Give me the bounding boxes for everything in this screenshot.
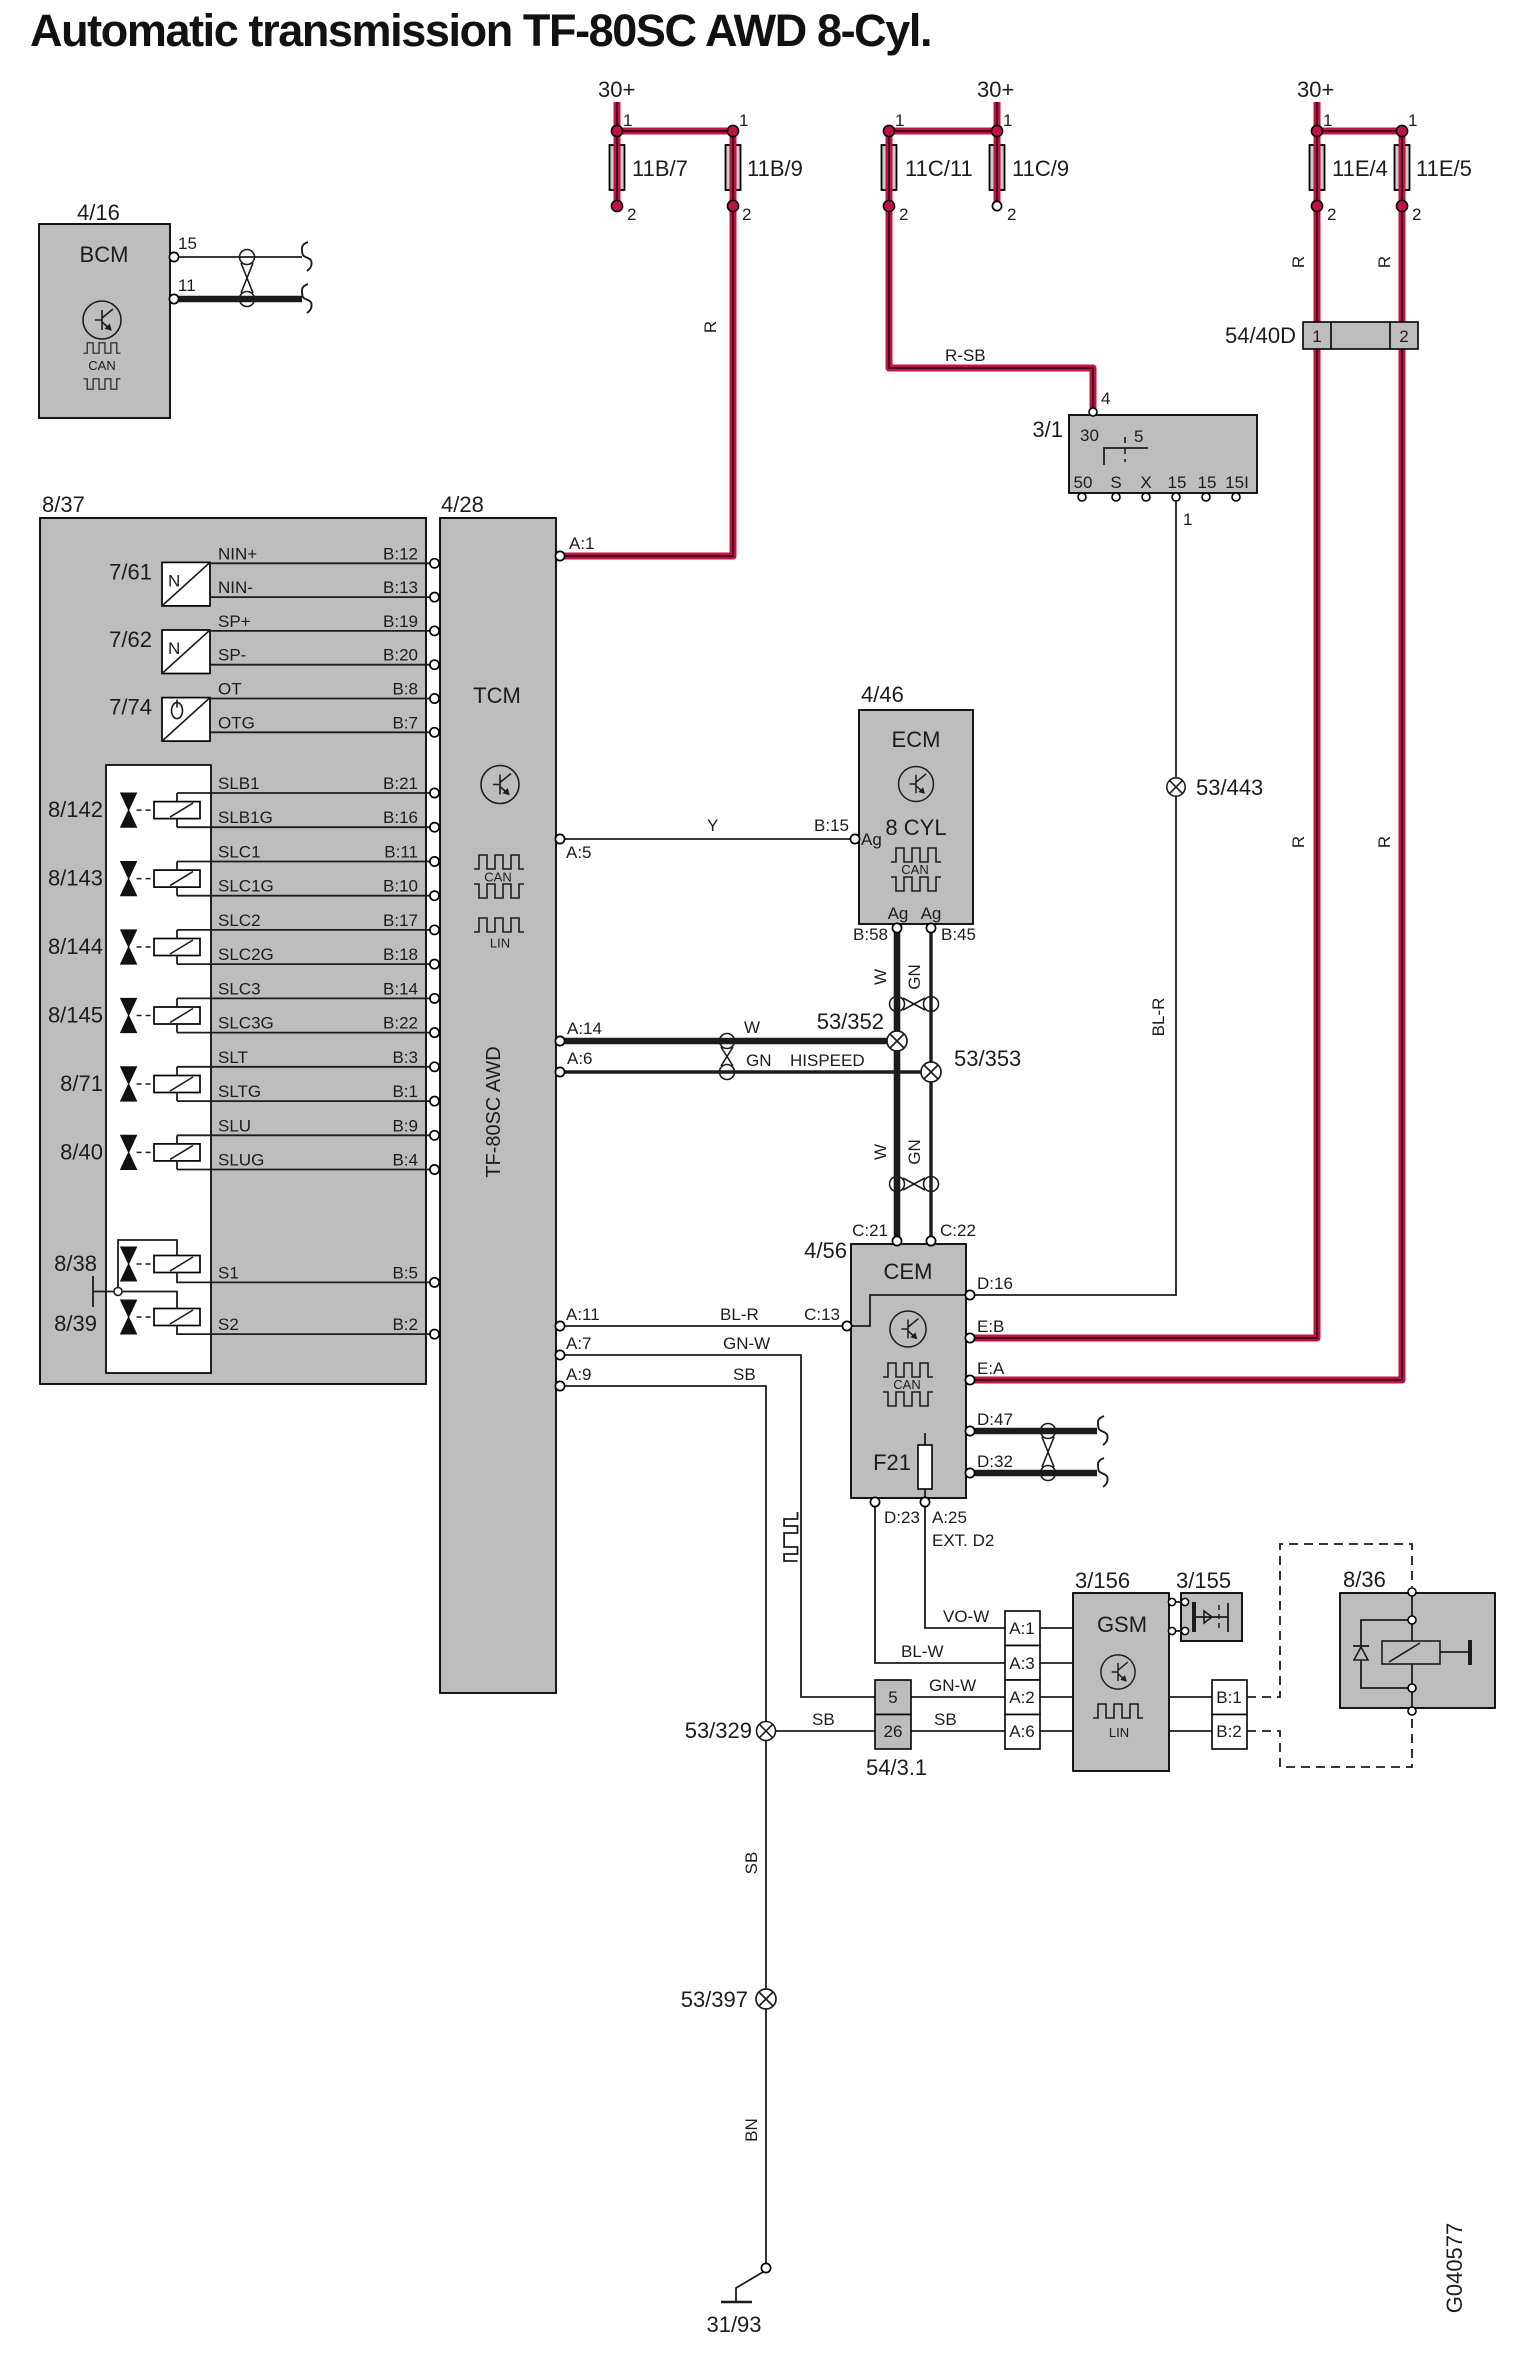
svg-text:30: 30 xyxy=(1080,426,1099,445)
wire Y TCM A:5 to ECM B:15 xyxy=(555,816,859,862)
svg-text:D:32: D:32 xyxy=(977,1452,1013,1471)
open terminal 11C/9 pin 2 xyxy=(992,201,1016,224)
ECM label 4/46 xyxy=(861,682,904,707)
svg-text:LIN: LIN xyxy=(490,936,510,951)
junction dot 11B/7 pin 1 xyxy=(611,111,632,137)
connector cell A:3 xyxy=(1005,1646,1040,1681)
svg-text:B:19: B:19 xyxy=(383,612,418,631)
svg-text:BCM: BCM xyxy=(80,242,129,267)
svg-text:B:20: B:20 xyxy=(383,646,418,665)
svg-text:GSM: GSM xyxy=(1097,1612,1147,1637)
svg-text:54/40D: 54/40D xyxy=(1225,323,1296,348)
CEM pin D:16 xyxy=(965,1274,1013,1300)
splice 53/353 xyxy=(921,1046,1021,1082)
solenoid valve 8/71 xyxy=(60,1067,200,1101)
svg-text:SB: SB xyxy=(934,1710,957,1729)
splice 53/443 xyxy=(1167,775,1263,800)
svg-text:A:14: A:14 xyxy=(567,1019,602,1038)
option break symbol on GN-W wire xyxy=(784,1512,797,1561)
BCM pin 15 wire xyxy=(169,234,311,271)
svg-text:11C/11: 11C/11 xyxy=(905,156,973,181)
svg-text:2: 2 xyxy=(1007,205,1016,224)
wire SLTG to TCM B:1 xyxy=(177,1082,439,1106)
wire OTG to TCM B:7 xyxy=(210,713,439,737)
CEM transistor symbol xyxy=(890,1311,926,1347)
svg-text:B:13: B:13 xyxy=(383,578,418,597)
solenoid white enclosure inside 8/37 xyxy=(106,765,211,1373)
shift solenoid 8/39 xyxy=(54,1300,200,1336)
CEM fuse F21 xyxy=(873,1433,932,1500)
svg-text:CAN: CAN xyxy=(88,358,115,373)
junction dot 11C/9 pin 1 xyxy=(991,111,1012,137)
wire color labels into GSM xyxy=(901,1607,989,1729)
GSM to antenna wires xyxy=(1168,1598,1188,1634)
svg-text:8/37: 8/37 xyxy=(42,492,85,517)
supply 30+ for 11B fuses xyxy=(598,77,635,131)
label 11E/4 xyxy=(1332,156,1388,181)
wire GSM B:2 xyxy=(1169,1730,1212,1732)
svg-text:8/38: 8/38 xyxy=(54,1251,97,1276)
connector cell A:2 xyxy=(1005,1680,1040,1715)
wire bus fuse 11B/7 to 11B/9 xyxy=(617,128,733,135)
svg-text:TF-80SC AWD: TF-80SC AWD xyxy=(483,1046,505,1178)
control module TCM 4/28 box xyxy=(440,518,556,1693)
wire D:47 twisted to body xyxy=(965,1410,1107,1445)
svg-text:B:10: B:10 xyxy=(383,877,418,896)
svg-text:ECM: ECM xyxy=(892,727,941,752)
wire A:7 GN-W TCM to GSM A:2 xyxy=(555,1334,1005,1697)
svg-text:SLB1G: SLB1G xyxy=(218,808,273,827)
junction dot 11E/5 pin 1 xyxy=(1396,111,1417,137)
svg-text:2: 2 xyxy=(899,205,908,224)
svg-text:11B/7: 11B/7 xyxy=(632,156,688,181)
svg-text:N: N xyxy=(168,639,180,658)
svg-text:B:2: B:2 xyxy=(392,1315,418,1334)
svg-text:GN: GN xyxy=(905,964,924,990)
wire SLC3 to TCM B:14 xyxy=(177,979,439,1003)
TCM TF-80SC AWD label xyxy=(483,1046,505,1178)
wire R fuse 11E/4 pin 2 to CEM E:B xyxy=(974,131,1317,1338)
svg-text:Ag: Ag xyxy=(921,904,942,923)
dashed wire B:1 to relay 8/36 coil xyxy=(1247,1544,1412,1697)
svg-text:SLT: SLT xyxy=(218,1048,248,1067)
svg-text:50: 50 xyxy=(1074,473,1093,492)
svg-text:SLUG: SLUG xyxy=(218,1151,264,1170)
svg-text:BL-R: BL-R xyxy=(720,1305,759,1324)
svg-text:X: X xyxy=(1140,473,1151,492)
svg-text:8/145: 8/145 xyxy=(48,1003,103,1028)
svg-text:B:5: B:5 xyxy=(392,1263,418,1282)
svg-text:R: R xyxy=(701,321,720,333)
svg-text:B:4: B:4 xyxy=(392,1151,418,1170)
sensor 7/62 xyxy=(109,627,210,674)
svg-text:SP-: SP- xyxy=(218,646,246,665)
svg-text:R: R xyxy=(1289,836,1308,848)
svg-text:CAN: CAN xyxy=(893,1377,920,1392)
BCM pin 11 wire xyxy=(169,276,311,313)
svg-text:SB: SB xyxy=(812,1710,835,1729)
GSM transistor symbol xyxy=(1101,1655,1135,1689)
fuse 11B/9 body xyxy=(726,145,741,190)
connector cell A:6 xyxy=(1005,1715,1040,1750)
svg-text:15: 15 xyxy=(1168,473,1187,492)
svg-text:S: S xyxy=(1110,473,1121,492)
svg-text:LIN: LIN xyxy=(1109,1725,1129,1740)
svg-text:8/39: 8/39 xyxy=(54,1311,97,1336)
CEM top pins C:21 C:22 xyxy=(852,1221,976,1246)
svg-text:W: W xyxy=(871,1144,890,1160)
svg-text:54/3.1: 54/3.1 xyxy=(866,1755,927,1780)
connector cell B:2 xyxy=(1212,1715,1247,1750)
svg-text:BN: BN xyxy=(742,2118,761,2142)
CEM label 4/56 xyxy=(804,1238,847,1263)
svg-text:SLC2G: SLC2G xyxy=(218,945,274,964)
wire SLB1 to TCM B:21 xyxy=(177,774,439,798)
wire D:23 BL-W CEM to GSM A:3 xyxy=(870,1497,1005,1663)
svg-text:11C/9: 11C/9 xyxy=(1012,156,1069,181)
svg-text:BL-R: BL-R xyxy=(1149,998,1168,1037)
junction dot 11B/9 pin 1 xyxy=(727,111,748,137)
label 11C/11 xyxy=(905,156,973,181)
twisted pair symbol D:47/D:32 xyxy=(1041,1424,1056,1481)
wire A:11 BL-R TCM to CEM C:13 xyxy=(555,1305,842,1331)
shift solenoid 8/38 xyxy=(54,1247,200,1281)
svg-text:B:11: B:11 xyxy=(384,843,418,862)
connector 8/37 box xyxy=(40,518,426,1384)
BCM transistor symbol xyxy=(83,301,121,339)
CEM title text xyxy=(884,1259,933,1284)
TCM CAN symbol xyxy=(474,855,524,898)
svg-text:D:16: D:16 xyxy=(977,1274,1013,1293)
splice 53/397 xyxy=(681,1987,776,2012)
sensor 7/61 xyxy=(109,559,210,606)
svg-text:B:58: B:58 xyxy=(853,925,888,944)
wire R fuse 11B/9 pin 2 to TCM A:1 xyxy=(564,131,733,556)
junction node of 8/38 and 8/39 labels xyxy=(93,1276,122,1307)
supply 30+ for 11E fuses xyxy=(1297,77,1334,131)
svg-text:SLTG: SLTG xyxy=(218,1082,261,1101)
svg-text:A:1: A:1 xyxy=(569,534,595,553)
svg-text:GN-W: GN-W xyxy=(929,1676,976,1695)
svg-text:CAN: CAN xyxy=(484,870,511,885)
TCM label text xyxy=(473,683,521,708)
svg-text:5: 5 xyxy=(1134,427,1143,446)
control module CEM 4/56 box xyxy=(851,1244,966,1498)
wire S1 to TCM B:5 xyxy=(177,1263,439,1287)
svg-text:B:22: B:22 xyxy=(383,1014,418,1033)
label 8/37 xyxy=(42,492,85,517)
wire SLB1G to TCM B:16 xyxy=(177,808,439,832)
svg-text:EXT. D2: EXT. D2 xyxy=(932,1531,994,1550)
TCM pin A:1 xyxy=(555,534,594,561)
svg-text:A:25: A:25 xyxy=(932,1508,967,1527)
svg-text:8/40: 8/40 xyxy=(60,1139,103,1164)
wire R-SB fuse 11C/11 pin 2 to ignition switch pin 4 xyxy=(889,131,1093,411)
wire W TCM A:14 to splice 53/352 xyxy=(555,1018,897,1046)
svg-text:15: 15 xyxy=(1198,473,1217,492)
title xyxy=(30,5,931,56)
svg-text:7/62: 7/62 xyxy=(109,627,152,652)
svg-text:B:14: B:14 xyxy=(383,979,418,998)
svg-text:15I: 15I xyxy=(1225,473,1249,492)
svg-text:SP+: SP+ xyxy=(218,612,251,631)
svg-text:4/28: 4/28 xyxy=(441,492,484,517)
svg-text:A:9: A:9 xyxy=(566,1365,592,1384)
svg-text:BL-W: BL-W xyxy=(901,1642,944,1661)
svg-text:SLC3: SLC3 xyxy=(218,979,261,998)
svg-text:SLC1G: SLC1G xyxy=(218,877,274,896)
svg-text:11B/9: 11B/9 xyxy=(747,156,803,181)
relay 8/36 internals xyxy=(1353,1588,1470,1715)
solenoid valve 8/142 xyxy=(48,793,200,827)
svg-text:B:2: B:2 xyxy=(1216,1722,1242,1741)
wire D:32 twisted to body xyxy=(965,1452,1107,1487)
terminal dot 11E/5 pin 2 xyxy=(1396,200,1421,224)
wire SLC1 to TCM B:11 xyxy=(177,843,439,867)
solenoid valve 8/143 xyxy=(48,862,200,896)
svg-text:C:21: C:21 xyxy=(852,1221,888,1240)
twisted pair symbol B:58/B:45 upper xyxy=(890,997,939,1012)
label 11B/9 xyxy=(747,156,803,181)
svg-text:53/353: 53/353 xyxy=(954,1046,1021,1071)
svg-text:CAN: CAN xyxy=(901,862,928,877)
ECM transistor symbol xyxy=(899,767,934,802)
svg-text:GN: GN xyxy=(746,1051,772,1070)
svg-text:A:11: A:11 xyxy=(566,1305,600,1324)
terminal dot 11C/11 pin 2 xyxy=(883,200,908,224)
junction dot 11C/11 pin 1 xyxy=(883,111,904,137)
svg-text:B:16: B:16 xyxy=(383,808,418,827)
label 11E/5 xyxy=(1416,156,1472,181)
svg-text:B:17: B:17 xyxy=(383,911,418,930)
svg-text:30+: 30+ xyxy=(598,77,635,102)
CEM internal link C:13 to D:16 xyxy=(851,1295,966,1326)
ground 31/93 xyxy=(706,2263,770,2337)
svg-text:SLC3G: SLC3G xyxy=(218,1014,274,1033)
svg-text:N: N xyxy=(168,571,180,590)
label 54/3.1 xyxy=(866,1755,927,1780)
svg-text:C:22: C:22 xyxy=(940,1221,976,1240)
svg-text:B:1: B:1 xyxy=(1216,1688,1242,1707)
svg-text:2: 2 xyxy=(1327,205,1336,224)
wire bus fuse 11C/11 to 11C/9 xyxy=(889,128,997,135)
wire SLC3G to TCM B:22 xyxy=(177,1014,439,1038)
fuse 11E/5 body xyxy=(1395,145,1410,190)
svg-text:B:12: B:12 xyxy=(383,544,418,563)
svg-text:2: 2 xyxy=(1412,205,1421,224)
connector cell B:1 xyxy=(1212,1680,1247,1715)
svg-text:A:6: A:6 xyxy=(1009,1722,1035,1741)
svg-text:SB: SB xyxy=(733,1365,756,1384)
CEM CAN symbol xyxy=(883,1363,933,1406)
BCM text xyxy=(80,242,129,267)
svg-text:OT: OT xyxy=(218,680,242,699)
svg-text:S1: S1 xyxy=(218,1263,239,1282)
svg-text:A:7: A:7 xyxy=(566,1334,592,1353)
svg-text:1: 1 xyxy=(1183,510,1192,529)
label 4/28 xyxy=(441,492,484,517)
svg-text:G040577: G040577 xyxy=(1442,2223,1467,2314)
svg-text:B:9: B:9 xyxy=(392,1116,418,1135)
TCM transistor symbol xyxy=(481,766,519,804)
svg-text:1: 1 xyxy=(1003,111,1012,130)
svg-text:SLB1: SLB1 xyxy=(218,774,260,793)
svg-text:1: 1 xyxy=(895,111,904,130)
terminal dot 11B/9 pin 2 xyxy=(727,200,751,224)
GSM LIN symbol xyxy=(1093,1704,1143,1740)
wires A cells to GSM xyxy=(1040,1628,1073,1731)
svg-text:F21: F21 xyxy=(873,1450,911,1475)
wire NIN+ to TCM B:12 xyxy=(210,544,439,568)
svg-text:Ag: Ag xyxy=(888,904,909,923)
ECM title text xyxy=(892,727,941,752)
svg-text:GN-W: GN-W xyxy=(723,1334,770,1353)
svg-text:31/93: 31/93 xyxy=(706,2312,761,2337)
twisted pair symbol C:21/C:22 lower xyxy=(890,1177,939,1192)
wire BL-R ignition 15 to CEM D:16 xyxy=(974,501,1192,1295)
svg-text:R: R xyxy=(1375,836,1394,848)
wire GN TCM A:6 to splice 53/353 HISPEED xyxy=(555,1049,931,1077)
svg-text:7/74: 7/74 xyxy=(109,695,152,720)
junction dot 11E/4 pin 1 xyxy=(1311,111,1332,137)
svg-text:R-SB: R-SB xyxy=(945,346,986,365)
svg-text:HISPEED: HISPEED xyxy=(790,1051,865,1070)
svg-text:B:7: B:7 xyxy=(392,713,418,732)
svg-text:3/155: 3/155 xyxy=(1176,1568,1231,1593)
fuse 11E/4 body xyxy=(1310,145,1325,190)
antenna 3/155 label and symbol xyxy=(1176,1568,1231,1632)
svg-text:B:3: B:3 xyxy=(392,1048,418,1067)
ignition switch bottom pins 50 S X 15 15 15I xyxy=(1078,493,1240,501)
svg-text:7/61: 7/61 xyxy=(109,559,152,584)
svg-text:SLU: SLU xyxy=(218,1116,251,1135)
svg-text:3/156: 3/156 xyxy=(1075,1568,1130,1593)
BCM CAN symbol xyxy=(84,343,121,389)
svg-text:Automatic transmission TF-80SC: Automatic transmission TF-80SC AWD 8-Cyl… xyxy=(30,5,931,56)
svg-text:2: 2 xyxy=(742,205,751,224)
svg-text:TCM: TCM xyxy=(473,683,521,708)
wire NIN- to TCM B:13 xyxy=(210,578,439,602)
svg-text:B:45: B:45 xyxy=(941,925,976,944)
wire through fuse 11C/9 xyxy=(994,131,1001,202)
svg-text:53/329: 53/329 xyxy=(685,1718,752,1743)
ECM Ag pin labels xyxy=(861,830,941,923)
svg-text:A:2: A:2 xyxy=(1009,1688,1035,1707)
supply 30+ for 11C fuses xyxy=(977,77,1014,131)
wire SLU to TCM B:9 xyxy=(177,1116,439,1140)
svg-text:B:21: B:21 xyxy=(383,774,418,793)
svg-text:11: 11 xyxy=(178,276,196,295)
svg-text:SLC2: SLC2 xyxy=(218,911,261,930)
twisted pair symbol A:14/A:6 xyxy=(720,1034,735,1080)
svg-text:1: 1 xyxy=(623,111,632,130)
wire SLC2 to TCM B:17 xyxy=(177,911,439,935)
solenoid valve 8/145 xyxy=(48,998,200,1032)
splice 53/352 xyxy=(817,1009,907,1051)
svg-text:53/443: 53/443 xyxy=(1196,775,1263,800)
wire GN ECM B:45 to CEM C:22 xyxy=(905,923,976,1239)
control module GSM 3/156 box xyxy=(1073,1593,1169,1771)
svg-text:CEM: CEM xyxy=(884,1259,933,1284)
svg-text:A:6: A:6 xyxy=(567,1049,593,1068)
connector cell A:1 xyxy=(1005,1611,1040,1646)
svg-text:15: 15 xyxy=(178,234,197,253)
ECM CAN symbol xyxy=(891,848,941,891)
wire SLUG to TCM B:4 xyxy=(177,1151,439,1175)
svg-text:A:1: A:1 xyxy=(1009,1619,1035,1638)
fuse 11C/11 body xyxy=(882,145,897,190)
wire GSM B:1 xyxy=(1169,1696,1212,1698)
svg-text:4: 4 xyxy=(1101,389,1110,408)
label 11C/9 xyxy=(1012,156,1069,181)
ECM 8 CYL text xyxy=(885,815,946,840)
svg-text:11E/5: 11E/5 xyxy=(1416,156,1472,181)
svg-text:1: 1 xyxy=(1312,327,1321,346)
CEM pin C:13 xyxy=(804,1305,852,1331)
CEM pin E:B xyxy=(965,1317,1004,1343)
svg-text:1: 1 xyxy=(739,111,748,130)
svg-text:NIN+: NIN+ xyxy=(218,544,257,563)
svg-text:D:47: D:47 xyxy=(977,1410,1013,1429)
wire SLC1G to TCM B:10 xyxy=(177,877,439,901)
svg-text:Y: Y xyxy=(707,816,718,835)
TCM LIN symbol xyxy=(474,918,524,951)
svg-text:E:B: E:B xyxy=(977,1317,1004,1336)
svg-text:26: 26 xyxy=(884,1722,903,1741)
wire SLC2G to TCM B:18 xyxy=(177,945,439,969)
svg-text:11E/4: 11E/4 xyxy=(1332,156,1388,181)
svg-text:4/46: 4/46 xyxy=(861,682,904,707)
svg-text:8 CYL: 8 CYL xyxy=(885,815,946,840)
svg-text:B:8: B:8 xyxy=(392,680,418,699)
wire A:25 VO-W CEM to GSM A:1 EXT. D2 xyxy=(920,1497,1005,1628)
wire W ECM B:58 to CEM C:21 xyxy=(853,923,902,1239)
connector 54/3.1 cell 26 xyxy=(875,1715,911,1750)
wire through fuse 11B/7 xyxy=(614,131,621,206)
svg-text:NIN-: NIN- xyxy=(218,578,253,597)
terminal dot 11E/4 pin 2 xyxy=(1311,200,1336,224)
BCM label 4/16 xyxy=(77,200,120,225)
wire SP+ to TCM B:19 xyxy=(210,612,439,636)
svg-text:W: W xyxy=(744,1018,760,1037)
svg-text:8/71: 8/71 xyxy=(60,1071,103,1096)
wire supply to 8/39 coil xyxy=(122,1292,177,1309)
svg-text:A:3: A:3 xyxy=(1009,1654,1035,1673)
svg-text:3/1: 3/1 xyxy=(1032,417,1063,442)
svg-text:W: W xyxy=(871,969,890,985)
ignition switch pin 4 xyxy=(1089,389,1110,416)
svg-text:30+: 30+ xyxy=(977,77,1014,102)
svg-text:C:13: C:13 xyxy=(804,1305,840,1324)
wire bus fuse 11E/4 to 11E/5 xyxy=(1317,128,1402,135)
ignition switch 3/1 labels and internals xyxy=(1032,417,1248,492)
svg-text:8/144: 8/144 xyxy=(48,934,103,959)
svg-text:SB: SB xyxy=(742,1852,761,1875)
svg-text:SLC1: SLC1 xyxy=(218,843,261,862)
svg-text:2: 2 xyxy=(1399,327,1408,346)
svg-text:D:23: D:23 xyxy=(884,1508,920,1527)
wire R fuse 11E/5 pin 2 to CEM E:A xyxy=(974,131,1402,1380)
ignition switch 3/1 box xyxy=(1069,415,1257,493)
sensor 7/74 xyxy=(109,695,210,742)
svg-text:30+: 30+ xyxy=(1297,77,1334,102)
svg-text:4/56: 4/56 xyxy=(804,1238,847,1263)
svg-text:A:5: A:5 xyxy=(566,843,592,862)
relay 8/36 box xyxy=(1340,1593,1495,1708)
wire A:9 SB TCM down to ground net xyxy=(555,1365,766,2264)
svg-text:VO-W: VO-W xyxy=(943,1607,989,1626)
terminal dot 11B/7 pin 2 xyxy=(611,200,636,224)
